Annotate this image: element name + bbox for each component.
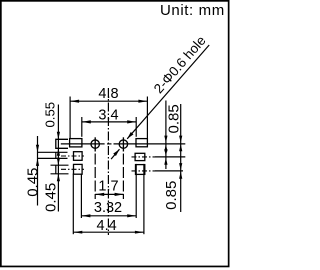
dim 0.85 right dimension line V_R2 <box>179 104 182 212</box>
dim 3.32 extension left <box>80 174 82 219</box>
row2 centerline right <box>132 156 156 158</box>
hole H1 (left, Phi 0.6) <box>91 137 99 151</box>
svg-text:4.4: 4.4 <box>97 218 117 234</box>
svg-text:3.32: 3.32 <box>94 200 122 216</box>
hole H2 lower center/extension line <box>122 154 124 200</box>
pad P6 right row3 <box>136 165 145 175</box>
leader line 2-Phi0.6 upper segment <box>127 45 209 139</box>
dim 3.4 line <box>82 120 136 123</box>
dim 0.45 left dimension line V_L2 <box>36 136 39 206</box>
dim 3.32 line <box>81 214 136 217</box>
hole H2 (right, Phi 0.6) <box>119 137 127 151</box>
pad P3 left center dash <box>61 168 84 170</box>
svg-text:Unit: mm: Unit: mm <box>160 2 225 19</box>
svg-text:0.55: 0.55 <box>43 102 58 128</box>
dim 1.7 line <box>95 193 123 196</box>
border frame <box>1 1 229 267</box>
dim 4.8 extension left <box>69 97 71 139</box>
svg-text:0.85: 0.85 <box>166 104 183 133</box>
dim 4.4 extension right <box>143 164 145 234</box>
hole H1 lower center/extension line <box>94 154 96 200</box>
vertical centerline <box>107 88 109 235</box>
horizontal centerline <box>61 143 105 145</box>
pad P1 left <box>70 139 82 147</box>
dim 4.4 extension left <box>72 174 74 235</box>
dim 4.8 extension right <box>146 97 148 139</box>
leader line 2-Phi0.6 lower segment <box>111 149 119 159</box>
pad P2 left <box>74 152 83 161</box>
pad P4 right row1 <box>136 139 147 147</box>
svg-text:0.45: 0.45 <box>43 183 60 212</box>
pad P5 right row2 <box>135 153 145 160</box>
pad P2 left center dash <box>61 155 84 157</box>
dim 4.8 line <box>70 100 147 103</box>
dim 0.85 right dimension line V_R1 <box>164 101 167 170</box>
svg-text:4.8: 4.8 <box>98 86 118 102</box>
dim 0.55 / 0.45 left dimension line V_L1 <box>57 105 60 212</box>
svg-text:1.7: 1.7 <box>98 179 118 195</box>
svg-text:0.85: 0.85 <box>163 181 180 210</box>
dim 3.32 extension right <box>135 164 137 218</box>
dim 4.4 line <box>73 231 144 234</box>
svg-text:0.45: 0.45 <box>25 168 42 197</box>
dim 3.4 extension right <box>135 117 137 137</box>
pad P3 left <box>74 164 83 174</box>
svg-text:2-Φ0.6 hole: 2-Φ0.6 hole <box>151 33 209 96</box>
row3 centerline right <box>132 170 156 172</box>
terminal bar T2 left lead / extensions <box>38 151 68 153</box>
terminal bar T1 left lead <box>56 139 68 148</box>
svg-text:3.4: 3.4 <box>98 108 118 124</box>
terminal bar T3 left lead / extensions <box>51 164 69 166</box>
dim 3.4 extension left <box>81 117 83 137</box>
